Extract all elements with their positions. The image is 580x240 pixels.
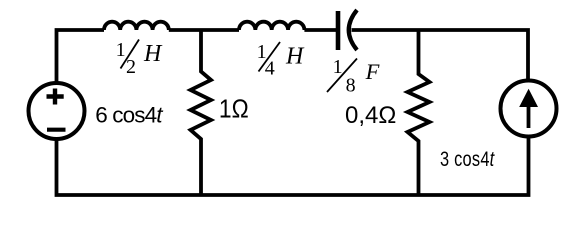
svg-text:0,4Ω: 0,4Ω <box>345 102 396 129</box>
svg-text:H: H <box>143 41 163 67</box>
svg-text:6 cos4t: 6 cos4t <box>95 103 164 128</box>
svg-text:2: 2 <box>126 56 136 78</box>
svg-text:8: 8 <box>346 75 356 97</box>
svg-text:1Ω: 1Ω <box>219 95 249 124</box>
svg-text:1: 1 <box>116 39 126 61</box>
svg-text:H: H <box>285 44 305 70</box>
svg-text:F: F <box>365 59 380 84</box>
svg-text:1: 1 <box>333 56 343 78</box>
svg-text:3 cos4t: 3 cos4t <box>440 147 495 170</box>
